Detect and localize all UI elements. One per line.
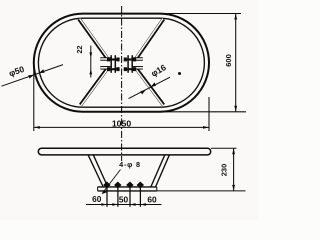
front view right leg	[151, 155, 169, 187]
svg-text:230: 230	[220, 164, 229, 177]
brace tube upper-right	[136, 19, 164, 59]
dimension 1050	[34, 63, 209, 131]
bottom chain dimension line	[86, 203, 162, 206]
flange plate left pair	[111, 55, 115, 73]
dimension 22	[75, 46, 92, 78]
bar top extension line	[211, 147, 237, 149]
front view base plate	[98, 187, 157, 191]
center hub tube left-upper	[100, 57, 111, 61]
base bottom extension line	[157, 190, 246, 192]
center hub tube right-upper	[132, 57, 142, 61]
bolt upper-left	[107, 58, 120, 62]
oval frame inner tube line	[38, 18, 204, 107]
front view left leg	[88, 155, 108, 187]
brace tube lower-left	[81, 68, 108, 105]
anchor bolt 1	[103, 182, 110, 207]
svg-text:60: 60	[92, 194, 102, 204]
anchor bolt 2	[114, 182, 121, 207]
svg-text:600: 600	[224, 54, 233, 67]
svg-text:4-φ 8: 4-φ 8	[119, 160, 141, 169]
bolt lower-right	[124, 67, 137, 71]
dimension 600	[162, 14, 246, 112]
brace tube lower-right	[136, 68, 164, 105]
anchor bolt 4	[137, 182, 144, 207]
vertical centerline (dash-dot)	[121, 6, 123, 161]
label 4-phi8 with leader	[102, 160, 141, 194]
anchor bolt 3	[126, 182, 133, 207]
dimension 230	[220, 148, 236, 191]
center hub tube right-lower	[132, 66, 142, 70]
brace tube upper-left	[79, 19, 108, 59]
svg-text:60: 60	[147, 194, 157, 204]
dimension phi16 leader	[129, 62, 171, 99]
ink dot	[178, 72, 181, 75]
oval frame outer tube line	[34, 14, 209, 112]
svg-text:22: 22	[75, 46, 84, 54]
bolt upper-right	[124, 58, 137, 62]
front view bar	[38, 148, 210, 155]
center hub tube left-lower	[100, 66, 111, 70]
dimension phi50 leader	[2, 64, 64, 86]
svg-text:1050: 1050	[112, 118, 131, 128]
flange plate right pair	[128, 55, 132, 73]
bolt lower-left	[107, 67, 120, 71]
svg-text:50: 50	[119, 194, 129, 204]
